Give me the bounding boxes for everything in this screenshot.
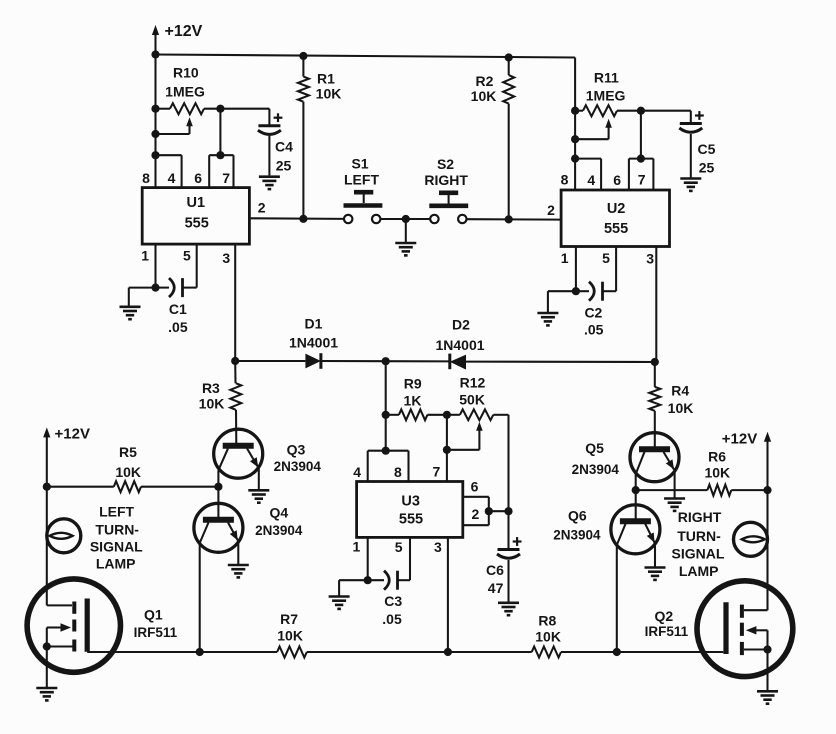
wire U1 pin5 to C1 xyxy=(196,244,198,288)
svg-text:R12: R12 xyxy=(460,375,486,391)
svg-text:1N4001: 1N4001 xyxy=(289,334,338,350)
wire Q2 channel ticks xyxy=(740,605,744,656)
node center diode junction xyxy=(382,357,390,365)
svg-text:Q5: Q5 xyxy=(585,440,604,456)
node R1 bottom junction xyxy=(299,215,307,223)
svg-text:50K: 50K xyxy=(459,392,485,408)
resistor R12 50K potentiometer xyxy=(460,409,493,420)
svg-text:10K: 10K xyxy=(471,88,497,104)
svg-text:RIGHT: RIGHT xyxy=(424,172,468,188)
svg-text:25: 25 xyxy=(699,160,715,176)
wire U1 pin3 down to D1 rail xyxy=(234,244,236,361)
node R10 left terminal xyxy=(151,105,159,113)
svg-text:C2: C2 xyxy=(584,305,602,321)
wire R12 wiper arm xyxy=(478,427,480,450)
svg-text:555: 555 xyxy=(399,512,423,528)
node pin6-2 tie xyxy=(485,507,493,515)
wire Q1 drain tap xyxy=(47,604,72,606)
wire C5 feed xyxy=(641,110,691,112)
wire U3 pin3 down to rail xyxy=(447,537,449,652)
wire right lamp feed xyxy=(766,490,768,610)
wire R10 output down to pins 6-7 tie xyxy=(219,109,221,156)
wire switch common ground stem xyxy=(405,219,407,242)
node R6 right at supply xyxy=(763,486,771,494)
wire center column from diode rail xyxy=(385,361,387,451)
svg-text:C5: C5 xyxy=(698,141,716,157)
wire D2 to U2 pin3 column xyxy=(466,361,655,363)
ground below switches xyxy=(395,243,416,255)
node R5 left at supply xyxy=(43,483,51,491)
svg-text:SIGNAL: SIGNAL xyxy=(90,538,143,554)
wire U2 pin8-pin4 tie bar xyxy=(575,158,601,160)
wire U3 pin4-pin8 tie staple xyxy=(368,450,409,452)
svg-text:1: 1 xyxy=(561,250,569,266)
transistor Q1 IRF511 MOSFET xyxy=(27,579,120,672)
wire D1 to center node xyxy=(321,360,450,362)
svg-text:R10: R10 xyxy=(173,65,199,81)
svg-text:R1: R1 xyxy=(317,71,335,87)
node R5 right / Q3 collector / Q4 base xyxy=(214,483,222,491)
svg-text:U3: U3 xyxy=(401,493,420,509)
wire R10 wiper arm xyxy=(188,122,190,134)
svg-text:R4: R4 xyxy=(671,383,689,399)
wire Q1 source tap xyxy=(47,645,73,647)
wire S1 to center ground node xyxy=(381,218,430,220)
svg-text:R7: R7 xyxy=(280,611,298,627)
svg-text:555: 555 xyxy=(604,221,628,237)
svg-text:1: 1 xyxy=(353,539,361,555)
wire U1 pin6-pin7 tie staple xyxy=(209,154,233,156)
wire Q6 base lead from node xyxy=(635,490,637,523)
node D2/R4 junction xyxy=(651,358,659,366)
svg-text:7: 7 xyxy=(638,172,646,188)
svg-text:1N4001: 1N4001 xyxy=(435,337,484,353)
resistor R1 10K xyxy=(302,56,304,77)
node R1 top at rail xyxy=(299,52,307,60)
wire R12 right leg down to C6 column xyxy=(507,415,509,549)
lamp RIGHT turn-signal xyxy=(734,522,768,556)
wire U1 pin1 down xyxy=(154,244,156,288)
svg-text:+12V: +12V xyxy=(722,430,757,447)
svg-text:10K: 10K xyxy=(535,628,561,644)
wire Q1 source to ground xyxy=(46,647,48,688)
node R2 top at rail xyxy=(505,53,513,61)
ground below C5 xyxy=(680,179,701,191)
node Q5 collector / Q6 base / R6 xyxy=(632,486,640,494)
power +12V supply arrow (left) xyxy=(46,433,48,486)
svg-text:Q2: Q2 xyxy=(655,608,674,624)
svg-text:R3: R3 xyxy=(202,380,220,396)
svg-text:IRF511: IRF511 xyxy=(134,625,178,640)
svg-text:5: 5 xyxy=(395,539,403,555)
wire U3 pin1 down xyxy=(367,537,369,580)
node R9 right / R12 left xyxy=(443,411,451,419)
capacitor C3 .05 xyxy=(368,579,384,581)
wire Q3 collector diagonal to R5 node xyxy=(218,448,228,470)
svg-text:RIGHT: RIGHT xyxy=(678,509,722,525)
diode D1 1N4001 xyxy=(305,354,321,369)
svg-text:8: 8 xyxy=(394,464,402,480)
contact S2 right xyxy=(458,215,466,223)
svg-text:R11: R11 xyxy=(594,70,619,86)
svg-text:5: 5 xyxy=(183,247,191,263)
svg-text:3: 3 xyxy=(222,250,230,266)
svg-text:+12V: +12V xyxy=(55,425,90,442)
svg-text:R8: R8 xyxy=(538,613,556,629)
svg-text:3: 3 xyxy=(434,539,442,555)
node U3 pin3 junction on rail xyxy=(444,648,452,656)
power +12V supply arrow (right) xyxy=(766,438,768,490)
svg-text:4: 4 xyxy=(353,464,361,480)
wire Q2 source tap xyxy=(744,648,768,650)
svg-text:Q4: Q4 xyxy=(269,505,288,521)
svg-text:8: 8 xyxy=(142,170,150,186)
op-amp U3 555 timer box xyxy=(357,482,463,538)
node U2 pin6-7 tie xyxy=(637,155,645,163)
power +12V supply arrow (top left) xyxy=(154,31,156,54)
svg-text:LAMP: LAMP xyxy=(679,563,719,579)
wire pin1 node to ground stub xyxy=(339,579,368,581)
node U2 pin1/C2 junction xyxy=(572,287,580,295)
ground below U1 pin1 xyxy=(120,307,141,319)
wire U2 pin3 down to D2 rail xyxy=(655,247,657,362)
wire Q2 drain tap xyxy=(744,609,768,611)
wire diode rail xyxy=(235,360,305,362)
op-amp U2 555 timer box xyxy=(561,190,669,247)
svg-text:+12V: +12V xyxy=(165,23,203,40)
svg-text:LEFT: LEFT xyxy=(99,504,134,520)
op-amp U1 555 timer box xyxy=(142,188,249,245)
capacitor C2 .05 xyxy=(576,290,589,292)
resistor R8 10K xyxy=(532,647,561,658)
wire U1 pin8-pin4 tie bar xyxy=(156,154,182,156)
node U2 pin8 tie xyxy=(571,155,579,163)
node U3 pin4-8 tie xyxy=(382,447,390,455)
svg-text:555: 555 xyxy=(185,216,209,232)
ground below C6 xyxy=(498,603,519,615)
svg-text:C1: C1 xyxy=(169,301,187,317)
wire S2 to U2 pin2 xyxy=(467,218,561,220)
wire Q2 body tap with arrow xyxy=(755,629,768,631)
wire Q2 source to ground xyxy=(766,650,768,691)
node R11 wiper junction xyxy=(571,135,579,143)
node wiper to rail junction xyxy=(151,130,159,138)
wire tie to C6 column xyxy=(489,510,509,512)
svg-text:Q3: Q3 xyxy=(287,442,306,458)
ground below Q5 emitter xyxy=(664,499,685,511)
wire Q1 channel ticks xyxy=(72,602,76,652)
svg-text:2N3904: 2N3904 xyxy=(274,459,322,474)
wire left lamp feed xyxy=(46,487,48,606)
transistor Q2 IRF511 MOSFET xyxy=(697,581,793,677)
wire Q4 emitter xyxy=(228,523,238,542)
wire Q5 emitter xyxy=(664,452,675,471)
svg-text:3: 3 xyxy=(646,250,654,266)
svg-text:D2: D2 xyxy=(452,317,470,333)
wire Q4 base lead from node xyxy=(217,487,219,523)
wire rail corner down to R11 xyxy=(574,58,576,191)
svg-text:6: 6 xyxy=(471,479,479,495)
capacitor C4 25uF xyxy=(258,124,280,127)
wire +12V rail top xyxy=(156,55,576,58)
wire R8 to Q2 gate xyxy=(561,651,723,653)
svg-text:47: 47 xyxy=(488,580,504,596)
wire R11 output down to pins 6-7 tie xyxy=(640,111,642,159)
svg-text:IRF511: IRF511 xyxy=(645,624,689,639)
wire U3 pin7 column xyxy=(446,415,448,482)
wire Q6 emitter xyxy=(645,523,655,543)
svg-text:2: 2 xyxy=(472,506,480,522)
wire Q6 collector diagonal down to gate rail xyxy=(617,523,626,545)
wire U1 pin2 to switches xyxy=(249,217,344,220)
node pin6-7 tie xyxy=(216,151,224,159)
svg-text:2: 2 xyxy=(547,202,555,218)
wire pin1 node to ground stub xyxy=(129,287,156,289)
svg-text:10K: 10K xyxy=(704,465,730,481)
ground below U2 pin1 xyxy=(537,313,558,325)
node switch common xyxy=(402,215,410,223)
contact S1 right xyxy=(372,215,380,223)
node Q1 source/body tie xyxy=(43,642,51,650)
svg-text:2N3904: 2N3904 xyxy=(553,527,601,542)
lamp LEFT turn-signal xyxy=(47,519,81,553)
contact S2 left xyxy=(430,215,438,223)
wire U3 pin6-pin2 bracket xyxy=(463,496,489,498)
svg-text:.05: .05 xyxy=(382,611,402,627)
svg-text:1MEG: 1MEG xyxy=(165,84,205,100)
wire U2 pin1 down xyxy=(575,247,577,292)
wire Q4 collector diagonal down to gate rail xyxy=(200,523,209,544)
svg-text:LAMP: LAMP xyxy=(96,555,136,571)
resistor R6 10K xyxy=(636,489,708,491)
svg-text:U2: U2 xyxy=(607,201,626,217)
ground below U3 pin1 xyxy=(329,597,350,609)
resistor R5 10K xyxy=(47,486,114,488)
transistor Q3 2N3904 xyxy=(214,429,263,478)
ground below Q2 xyxy=(757,691,778,703)
wire R11 wiper arm xyxy=(608,124,610,139)
node D1 anode rail junction xyxy=(231,357,239,365)
wire C4 feed from R10 node xyxy=(220,108,269,110)
node R11 left terminal xyxy=(571,107,579,115)
svg-text:10K: 10K xyxy=(668,400,694,416)
svg-text:TURN-: TURN- xyxy=(95,521,139,537)
wire R7 to R8 xyxy=(307,651,532,653)
svg-text:7: 7 xyxy=(222,170,230,186)
ground below Q6 emitter xyxy=(645,568,666,580)
node U3 pin1/C3 junction xyxy=(364,576,372,584)
wire Q5 collector diagonal to node xyxy=(636,452,645,474)
resistor R3 10K xyxy=(234,361,236,383)
svg-text:C6: C6 xyxy=(486,562,504,578)
svg-text:U1: U1 xyxy=(187,195,206,211)
resistor R11 1MEG potentiometer xyxy=(575,110,583,112)
svg-text:R9: R9 xyxy=(404,375,422,391)
svg-text:1K: 1K xyxy=(404,393,422,409)
resistor R7 10K xyxy=(277,647,307,658)
wire gate rail from Q1 xyxy=(87,651,277,653)
wire left supply column to U1 pin8 xyxy=(154,55,156,188)
ground below Q3 emitter xyxy=(248,490,269,502)
svg-text:Q1: Q1 xyxy=(144,607,163,623)
resistor R9 1K xyxy=(386,414,399,416)
svg-text:10K: 10K xyxy=(277,627,303,643)
ground below Q1 xyxy=(36,688,57,700)
svg-text:D1: D1 xyxy=(305,316,323,332)
svg-text:S2: S2 xyxy=(437,156,454,172)
node R12 wiper to pin7 column xyxy=(443,446,451,454)
svg-text:10K: 10K xyxy=(199,396,225,412)
svg-text:8: 8 xyxy=(561,172,569,188)
transistor Q5 2N3904 xyxy=(630,433,679,482)
svg-text:R2: R2 xyxy=(476,73,494,89)
svg-text:LEFT: LEFT xyxy=(344,172,379,188)
svg-text:.05: .05 xyxy=(584,322,604,338)
wire Q3 emitter xyxy=(247,448,259,468)
ground below Q4 emitter xyxy=(228,565,249,577)
node R10 right terminal xyxy=(216,105,224,113)
node R9 left xyxy=(382,411,390,419)
node Q4 collector junction xyxy=(196,648,204,656)
svg-text:10K: 10K xyxy=(316,86,342,102)
diode D2 1N4001 xyxy=(448,354,451,370)
svg-text:C4: C4 xyxy=(275,139,293,155)
svg-text:.05: .05 xyxy=(168,319,188,335)
wire U3 pin5 to C3 xyxy=(409,537,411,580)
resistor R2 10K xyxy=(508,58,510,76)
node Q6 collector junction xyxy=(613,648,621,656)
wire Q1 gate bar xyxy=(85,599,90,652)
wire U2 pin6-pin7 tie staple xyxy=(629,158,654,160)
svg-text:7: 7 xyxy=(433,463,441,479)
svg-text:C3: C3 xyxy=(384,593,402,609)
svg-text:6: 6 xyxy=(194,170,202,186)
svg-text:SIGNAL: SIGNAL xyxy=(672,546,725,562)
svg-text:6: 6 xyxy=(613,172,621,188)
svg-text:Q6: Q6 xyxy=(568,508,587,524)
contact S1 left xyxy=(344,215,352,223)
node pin1/C1 junction xyxy=(151,284,159,292)
wire pin1 node to ground stub xyxy=(548,290,576,292)
resistor R4 10K xyxy=(654,362,656,387)
transistor Q4 2N3904 xyxy=(194,503,243,552)
resistor R10 1MEG potentiometer xyxy=(156,108,171,110)
svg-text:1: 1 xyxy=(141,248,149,264)
transistor Q6 2N3904 xyxy=(611,505,660,554)
svg-text:2N3904: 2N3904 xyxy=(572,462,620,477)
wire Q2 gate bar xyxy=(723,602,728,654)
wire Q1 body tap with arrow xyxy=(47,626,61,628)
svg-text:25: 25 xyxy=(276,158,292,174)
svg-text:5: 5 xyxy=(602,250,610,266)
capacitor C1 .05 xyxy=(156,287,170,289)
svg-text:2: 2 xyxy=(258,200,266,216)
node R2 bottom junction xyxy=(505,215,513,223)
ground below C4 xyxy=(259,177,280,189)
capacitor C5 25uF xyxy=(680,122,702,125)
node pin8 tie xyxy=(151,151,159,159)
node Q2 source/body tie xyxy=(763,645,771,653)
node rail-left junction xyxy=(151,50,159,58)
node R11 right terminal xyxy=(637,107,645,115)
svg-text:TURN-: TURN- xyxy=(677,528,721,544)
svg-text:R6: R6 xyxy=(708,448,726,464)
svg-text:4: 4 xyxy=(168,170,176,186)
node C6 column junction xyxy=(504,507,512,515)
svg-text:S1: S1 xyxy=(351,156,368,172)
wire U2 pin5 to C2 xyxy=(615,247,617,292)
svg-text:10K: 10K xyxy=(115,464,141,480)
svg-text:1MEG: 1MEG xyxy=(586,88,626,104)
svg-text:R5: R5 xyxy=(119,444,137,460)
svg-text:4: 4 xyxy=(587,172,595,188)
capacitor C6 47uF xyxy=(498,548,520,551)
svg-text:2N3904: 2N3904 xyxy=(255,523,303,538)
